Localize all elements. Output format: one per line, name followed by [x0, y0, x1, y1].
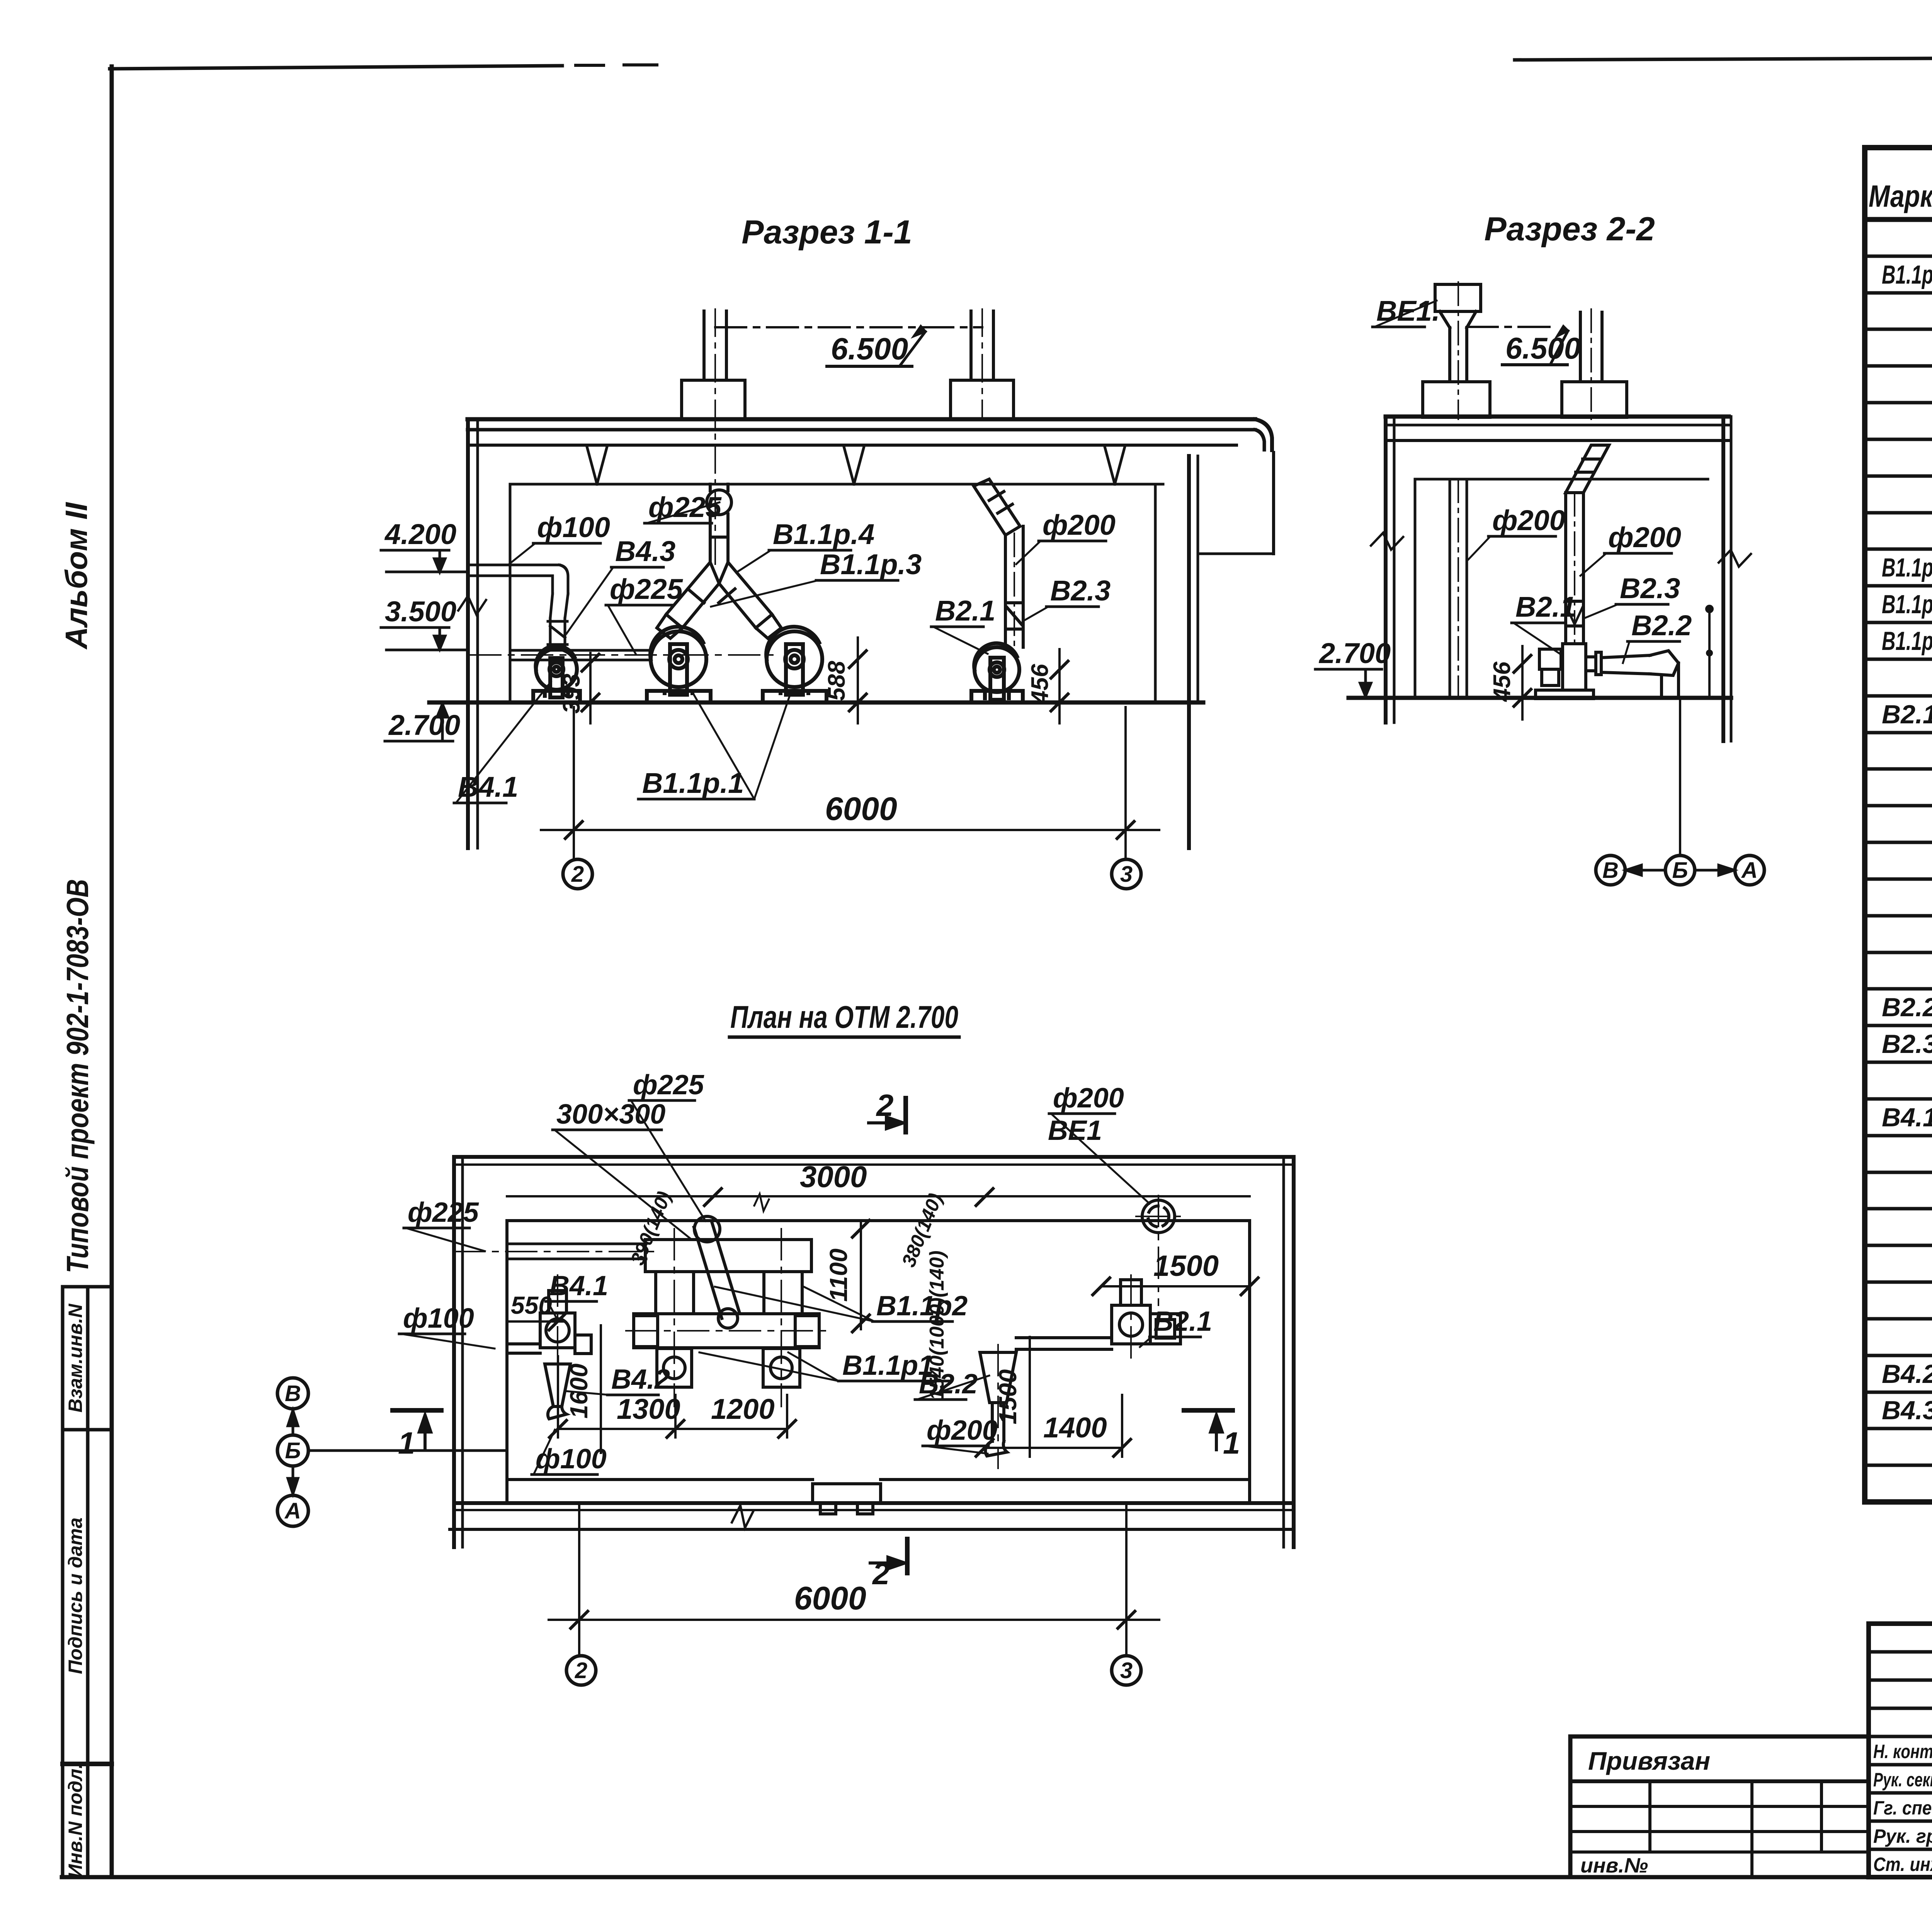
fan unit В4.1	[533, 646, 580, 702]
svg-text:ф100: ф100	[403, 1303, 474, 1334]
svg-text:Разрез 2-2: Разрез 2-2	[1484, 211, 1655, 248]
Y duct branches	[657, 562, 781, 638]
dimension 6.500	[715, 326, 982, 366]
svg-text:3: 3	[1120, 1658, 1133, 1683]
svg-text:В: В	[1602, 858, 1619, 883]
svg-text:Взам.инв.N: Взам.инв.N	[65, 1303, 86, 1412]
plan unit В4	[507, 1275, 591, 1426]
svg-text:инв.№: инв.№	[1580, 1854, 1648, 1877]
svg-text:В2.3: В2.3	[1050, 575, 1111, 607]
axis circle Б	[1665, 855, 1695, 885]
svg-text:В2.1: В2.1	[1882, 700, 1932, 729]
svg-text:ф200: ф200	[1043, 509, 1116, 541]
svg-text:В4.3: В4.3	[615, 535, 675, 567]
svg-text:Разрез 1-1: Разрез 1-1	[742, 214, 912, 251]
svg-text:ф225: ф225	[633, 1070, 704, 1100]
stack base boxes section 2-2	[1423, 382, 1627, 417]
level mark 4.200	[381, 518, 468, 572]
deflector ВЕ1	[1435, 282, 1481, 419]
svg-text:1600: 1600	[565, 1364, 593, 1418]
svg-text:Марка: Марка	[1869, 179, 1932, 213]
svg-text:В2.3: В2.3	[1882, 1029, 1932, 1059]
svg-text:В1.1р.4: В1.1р.4	[773, 518, 874, 550]
svg-text:ВЕ1: ВЕ1	[1048, 1115, 1102, 1146]
svg-text:393: 393	[558, 673, 585, 713]
dimension 6.500 section 2-2	[1467, 326, 1581, 365]
svg-text:ф200: ф200	[1053, 1083, 1124, 1114]
svg-text:2: 2	[571, 862, 584, 887]
svg-text:3: 3	[1120, 862, 1133, 887]
svg-text:550: 550	[511, 1291, 552, 1319]
svg-text:ф200: ф200	[927, 1415, 998, 1446]
svg-text:В2.2.: В2.2.	[1882, 993, 1932, 1022]
svg-text:ф100: ф100	[537, 511, 610, 543]
svg-text:1500: 1500	[1153, 1250, 1219, 1282]
axis circle А	[1735, 855, 1764, 885]
svg-text:1: 1	[1223, 1426, 1240, 1460]
axis circle Б plan	[277, 1435, 308, 1466]
axis circle А plan	[277, 1495, 308, 1526]
section view Razrez 2-2	[1315, 211, 1764, 885]
svg-text:В1.1р.1: В1.1р.1	[1882, 260, 1932, 289]
title block	[1869, 1624, 1932, 1877]
dim 456 section 2-2	[1489, 646, 1531, 719]
svg-text:2.700: 2.700	[388, 709, 460, 741]
sheet frame bottom border	[62, 1875, 1932, 1879]
wall break mark	[456, 594, 488, 617]
svg-text:В1.1р.4: В1.1р.4	[1882, 626, 1932, 656]
svg-text:Н. контр: Н. контр	[1873, 1741, 1932, 1762]
svg-text:2.700: 2.700	[1318, 637, 1391, 669]
svg-text:Типовой проект 902-1-7083-ОВ: Типовой проект 902-1-7083-ОВ	[60, 879, 95, 1273]
svg-text:300×300: 300×300	[556, 1099, 665, 1130]
riser duct to stack section 2-2	[1566, 445, 1609, 644]
svg-text:Альбом II: Альбом II	[59, 502, 94, 650]
dim 1500 plan top	[1093, 1250, 1258, 1295]
sheet frame top border	[110, 66, 562, 69]
break marks section 2-2	[1370, 531, 1404, 551]
axis circle 2 section 1-1	[563, 859, 592, 889]
roof slab section 2-2	[1386, 417, 1729, 479]
left wall section 1-1	[468, 419, 510, 848]
plan view Plan na OTM 2.700	[277, 1000, 1294, 1685]
svg-text:3.500: 3.500	[385, 595, 456, 628]
section mark 1 left	[393, 1410, 441, 1460]
right wall section 2-2	[1723, 417, 1731, 741]
svg-text:4.200: 4.200	[384, 518, 456, 550]
svg-text:Б: Б	[285, 1438, 301, 1463]
svg-text:Подпись и дата: Подпись и дата	[65, 1517, 86, 1674]
svg-text:1: 1	[398, 1426, 415, 1460]
svg-text:В4.1: В4.1	[1882, 1103, 1932, 1132]
level pole right	[1706, 606, 1713, 698]
svg-text:Ст. инж: Ст. инж	[1873, 1854, 1932, 1875]
svg-text:Б: Б	[1672, 858, 1688, 883]
floor line section 2-2	[1349, 696, 1731, 700]
В2 riser duct fi200	[974, 479, 1023, 649]
svg-text:ф200: ф200	[1492, 504, 1565, 536]
left wall section 2-2	[1386, 417, 1415, 723]
svg-text:6000: 6000	[794, 1580, 866, 1616]
exhaust stack 2	[951, 309, 1014, 419]
axis circle В plan	[277, 1378, 308, 1409]
svg-text:В1.1р.3: В1.1р.3	[1882, 590, 1932, 619]
section mark 2 top	[869, 1088, 906, 1132]
svg-text:588: 588	[823, 661, 850, 701]
svg-text:1300: 1300	[617, 1393, 680, 1425]
dim 1300 1200	[549, 1356, 796, 1437]
level mark 2.700 section 2-2	[1315, 637, 1391, 696]
roof panel joints	[587, 447, 1125, 484]
dim 1100 vertical	[825, 1220, 869, 1332]
plan unit В1.1р	[634, 1240, 819, 1387]
floor line section 1-1	[429, 701, 1203, 705]
sheet frame left border	[110, 66, 114, 1877]
title block tall grid	[1869, 1624, 1932, 1877]
fan unit В2.1 section 2-2	[1536, 644, 1601, 699]
svg-text:В2.1: В2.1	[1515, 591, 1576, 623]
svg-text:В1.1р.2: В1.1р.2	[1882, 553, 1932, 582]
plan wall break mark	[732, 1505, 753, 1528]
dimension 6000 section 1-1	[541, 707, 1159, 859]
ВЕ1 deflector circle plan	[1136, 1196, 1181, 1305]
dim 588	[823, 638, 866, 723]
right wall section 1-1	[1155, 452, 1274, 848]
svg-text:В2.2: В2.2	[1631, 609, 1692, 641]
svg-text:ф225: ф225	[408, 1197, 479, 1228]
dim 456	[1027, 649, 1068, 723]
dim 3000 plan	[507, 1160, 1250, 1211]
fan unit В2.1	[971, 643, 1023, 702]
leader to axis Б	[1679, 698, 1681, 855]
plan unit centerlines	[626, 1229, 827, 1406]
svg-text:В4.1: В4.1	[549, 1270, 608, 1301]
svg-text:В4.1: В4.1	[458, 771, 518, 803]
plan Y duct diagonal	[694, 1216, 740, 1328]
svg-text:В2.1: В2.1	[935, 595, 995, 627]
dim 550	[507, 1291, 566, 1330]
dim 1400	[976, 1395, 1131, 1457]
svg-text:6.500: 6.500	[1505, 331, 1581, 365]
svg-text:В2.3: В2.3	[1620, 572, 1680, 604]
svg-text:В4.2: В4.2	[611, 1364, 670, 1395]
svg-text:2: 2	[575, 1658, 587, 1683]
stack 2 section 2-2	[1580, 309, 1602, 419]
В4 vertical duct and elbow to wall	[470, 565, 568, 646]
axis circle 2 plan	[566, 1656, 596, 1685]
roof slab	[468, 419, 1272, 484]
plan axis 2/3 and dim 6000	[549, 1503, 1159, 1656]
svg-text:Инв.N подл.: Инв.N подл.	[65, 1763, 86, 1878]
level mark 2.700	[385, 704, 460, 741]
level mark 3.500	[381, 595, 468, 650]
svg-text:В4.2: В4.2	[1882, 1359, 1932, 1389]
svg-text:В2.1: В2.1	[1153, 1306, 1212, 1337]
svg-text:1100: 1100	[825, 1248, 852, 1302]
section view Razrez 1-1	[381, 214, 1274, 889]
svg-text:В1.1р.3: В1.1р.3	[820, 548, 922, 580]
discharge duct В2.2	[1601, 651, 1679, 698]
dim 393	[558, 653, 599, 723]
svg-text:В2.2: В2.2	[919, 1369, 978, 1400]
svg-text:6.500: 6.500	[831, 332, 908, 366]
svg-text:1500: 1500	[994, 1369, 1022, 1424]
svg-text:Привязан: Привязан	[1588, 1747, 1710, 1775]
Y duct riser	[707, 484, 731, 562]
dim 1500 rotated right	[994, 1337, 1030, 1457]
svg-text:План на ОТМ 2.700: План на ОТМ 2.700	[730, 1000, 958, 1035]
svg-text:В1.1р.1: В1.1р.1	[642, 767, 744, 799]
axis circle В	[1596, 855, 1625, 885]
left stamp table	[61, 1287, 65, 1877]
section mark 2 bottom	[870, 1539, 907, 1591]
axis circle 3 section 1-1	[1112, 859, 1141, 889]
svg-text:Рук. гр.: Рук. гр.	[1873, 1825, 1932, 1847]
fi200 pipe from ВЕ1 inside	[1450, 479, 1467, 698]
svg-text:В1.1р2: В1.1р2	[876, 1291, 968, 1321]
svg-text:1200: 1200	[711, 1393, 775, 1425]
svg-text:3000: 3000	[800, 1160, 867, 1194]
axis circle 3 plan	[1112, 1656, 1141, 1685]
svg-text:1400: 1400	[1043, 1412, 1107, 1444]
svg-text:ф225: ф225	[648, 491, 722, 523]
fan unit В1.1р.1 right	[763, 627, 827, 702]
svg-text:В4.3: В4.3	[1882, 1396, 1932, 1425]
privyazan box	[1570, 1736, 1869, 1877]
svg-text:ф225: ф225	[610, 573, 684, 605]
svg-text:6000: 6000	[825, 791, 897, 827]
plan duct fi225 top left	[454, 1244, 657, 1259]
plan door opening	[813, 1484, 881, 1514]
exhaust stack 1	[682, 309, 745, 564]
axis arrows	[1626, 865, 1734, 875]
svg-text:456: 456	[1027, 664, 1053, 705]
svg-text:В: В	[285, 1381, 301, 1406]
svg-text:А: А	[1741, 858, 1758, 883]
plan unit В2	[980, 1275, 1180, 1468]
svg-text:ф200: ф200	[1608, 521, 1681, 553]
fan unit В1.1р.1 left	[647, 627, 711, 702]
svg-text:А: А	[284, 1498, 301, 1524]
suction duct fi225 horizontal	[470, 650, 773, 660]
dim 1600 rotated	[565, 1325, 601, 1453]
plan walls	[450, 1157, 1294, 1547]
section mark 1 right	[1184, 1410, 1240, 1460]
spec table grid	[1865, 148, 1932, 1502]
svg-text:Рук. сект: Рук. сект	[1873, 1769, 1932, 1791]
svg-text:Гг. спец: Гг. спец	[1873, 1797, 1932, 1819]
